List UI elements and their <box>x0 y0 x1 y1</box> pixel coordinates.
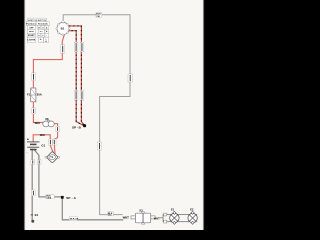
svg-text:B+I: B+I <box>40 31 44 33</box>
wire SP-A lower run <box>62 197 123 219</box>
battery-SPA horizontal label <box>46 195 54 200</box>
bottom connector X3 <box>123 208 156 224</box>
red wire fuse to X8 <box>33 102 43 123</box>
battery G1 <box>27 138 46 155</box>
svg-text:BLK110: BLK110 <box>70 219 79 221</box>
svg-text:IGNITION SWITCH: IGNITION SWITCH <box>28 20 47 22</box>
ground wire battery right to SP-A <box>34 150 61 197</box>
wire B1 top loop (gray) <box>63 15 130 215</box>
splice SP-B <box>83 124 86 127</box>
lamp E1 <box>170 207 179 224</box>
solenoid Y1 <box>45 151 60 163</box>
svg-text:1105: 1105 <box>46 198 51 200</box>
svg-text:WHI: WHI <box>35 121 40 125</box>
svg-text:WHI: WHI <box>40 133 45 137</box>
svg-text:LIGHTS: LIGHTS <box>27 40 35 42</box>
B1 key switch <box>56 20 70 35</box>
svg-text:B1: B1 <box>61 27 65 31</box>
ignition switch table <box>26 18 49 43</box>
svg-text:OFF: OFF <box>29 27 34 29</box>
svg-text:+: + <box>27 138 29 142</box>
wire label boxes <box>31 12 132 220</box>
svg-text:E2: E2 <box>190 207 194 211</box>
dashed wires B1 to SP-B <box>69 26 85 126</box>
svg-text:WHT: WHT <box>123 216 130 220</box>
svg-text:E1: E1 <box>171 207 175 211</box>
bottom upper-wire label <box>108 212 114 217</box>
splice SP-A <box>61 196 64 199</box>
svg-text:M: M <box>38 27 40 29</box>
svg-text:E4: E4 <box>35 213 39 217</box>
ground wire battery left <box>31 150 33 221</box>
svg-text:Positions: Positions <box>26 23 36 26</box>
svg-text:SP - A: SP - A <box>66 196 76 200</box>
svg-text:WHT: WHT <box>154 217 160 221</box>
red wire B1 bottom to fuse <box>33 34 64 88</box>
svg-text:START: START <box>28 34 36 37</box>
red wire X8 to Y1 <box>54 124 57 154</box>
svg-text:RUN: RUN <box>29 31 34 33</box>
fuse F1 <box>27 88 42 102</box>
connector X8 <box>43 117 55 127</box>
lamp E2 <box>188 207 197 224</box>
dashed wire labels <box>74 42 83 100</box>
red wire battery+ to Y1 <box>33 135 53 153</box>
red wire labels <box>32 45 65 145</box>
SP-A bottom-wire label <box>69 217 79 221</box>
svg-text:Terminals: Terminals <box>38 24 49 26</box>
mid vertical label <box>97 142 101 150</box>
svg-text:G1: G1 <box>41 143 45 147</box>
E4 wire labels <box>31 160 41 196</box>
lamp rails fork <box>160 215 197 222</box>
svg-text:SP - B: SP - B <box>72 126 82 130</box>
top loop label <box>96 12 102 18</box>
svg-text:-: - <box>27 150 28 154</box>
svg-text:X8: X8 <box>45 117 49 121</box>
svg-text:30A: 30A <box>37 93 42 97</box>
ground E4 <box>31 220 34 223</box>
svg-text:X3: X3 <box>139 208 143 212</box>
right vertical label <box>128 74 132 82</box>
svg-text:F1: F1 <box>27 93 31 97</box>
